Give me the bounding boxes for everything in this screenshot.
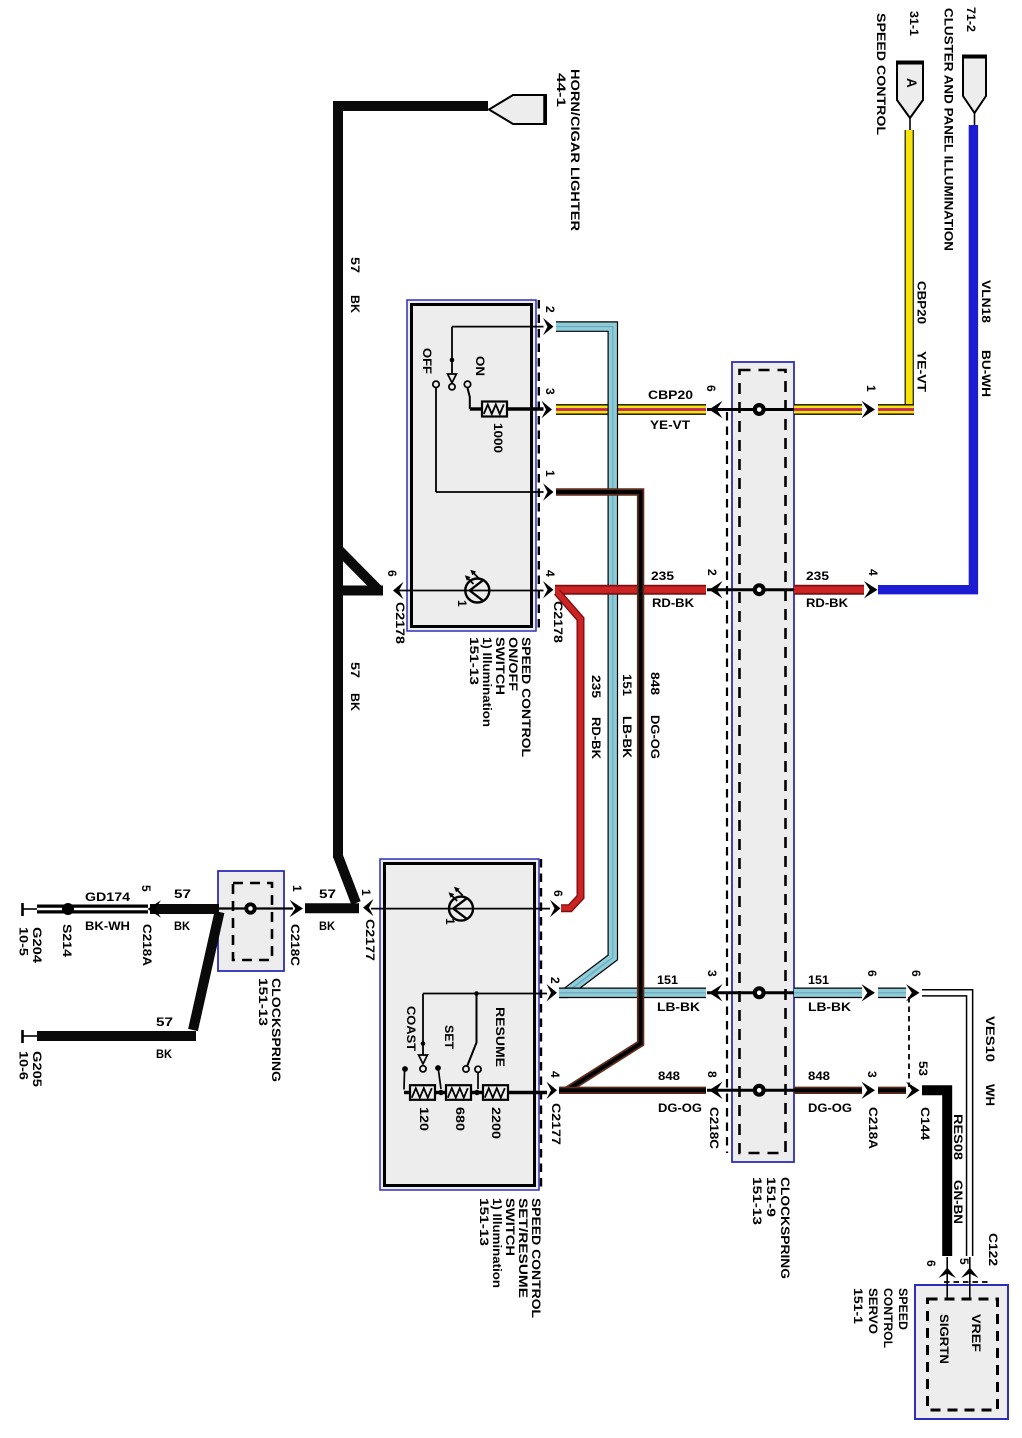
svg-text:1: 1 (290, 885, 304, 892)
svg-text:YE-VT: YE-VT (650, 418, 691, 432)
svg-text:1) Illumination: 1) Illumination (490, 1198, 504, 1288)
svg-text:57: 57 (348, 662, 362, 678)
svg-text:151-13: 151-13 (256, 978, 270, 1026)
svg-text:235: 235 (589, 675, 603, 698)
svg-text:2: 2 (548, 977, 562, 984)
svg-text:C218C: C218C (288, 924, 302, 966)
svg-text:4: 4 (548, 1071, 562, 1078)
svg-text:HORN/CIGAR LIGHTER: HORN/CIGAR LIGHTER (568, 69, 582, 231)
svg-text:1000: 1000 (491, 423, 505, 453)
svg-text:SIGRTN: SIGRTN (937, 1314, 951, 1364)
svg-text:DG-OG: DG-OG (808, 1101, 852, 1115)
svg-text:151: 151 (657, 973, 678, 987)
svg-text:C218A: C218A (140, 924, 154, 966)
svg-text:151-9: 151-9 (764, 1177, 778, 1217)
svg-text:151-13: 151-13 (750, 1177, 764, 1225)
svg-text:6: 6 (865, 970, 879, 977)
svg-text:57: 57 (319, 887, 336, 901)
svg-text:CLOCKSPRING: CLOCKSPRING (269, 978, 283, 1082)
svg-text:44-1: 44-1 (554, 73, 568, 107)
svg-text:SPEED: SPEED (896, 1288, 910, 1330)
svg-text:151: 151 (620, 674, 634, 696)
svg-text:VES10: VES10 (983, 1016, 997, 1062)
svg-text:RES08: RES08 (951, 1114, 965, 1160)
svg-text:SET/RESUME: SET/RESUME (516, 1198, 530, 1298)
svg-text:4: 4 (543, 570, 557, 577)
svg-text:2: 2 (543, 306, 557, 313)
svg-text:S214: S214 (60, 924, 74, 957)
svg-text:BU-WH: BU-WH (979, 350, 993, 397)
svg-text:2200: 2200 (489, 1107, 503, 1139)
svg-text:A: A (904, 78, 919, 88)
svg-text:6: 6 (551, 890, 565, 897)
svg-text:1: 1 (443, 918, 457, 925)
svg-text:3: 3 (705, 970, 719, 977)
svg-text:ON/OFF: ON/OFF (506, 637, 520, 691)
svg-text:6: 6 (909, 970, 923, 977)
svg-text:C122: C122 (986, 1233, 1000, 1266)
svg-text:3: 3 (543, 388, 557, 395)
svg-text:GD174: GD174 (85, 890, 130, 904)
svg-text:LB-BK: LB-BK (620, 716, 634, 758)
svg-text:SERVO: SERVO (866, 1288, 880, 1334)
svg-text:RD-BK: RD-BK (806, 596, 848, 610)
svg-text:10-5: 10-5 (17, 927, 31, 956)
svg-text:C2177: C2177 (363, 919, 377, 961)
svg-text:6: 6 (385, 570, 399, 577)
svg-text:OFF: OFF (420, 348, 434, 374)
svg-text:BK-WH: BK-WH (85, 919, 130, 933)
svg-text:RESUME: RESUME (493, 1007, 507, 1067)
svg-text:1: 1 (359, 889, 373, 896)
svg-text:5: 5 (957, 1258, 971, 1265)
svg-text:G204: G204 (30, 927, 44, 963)
svg-text:G205: G205 (30, 1051, 44, 1087)
svg-text:SET: SET (442, 1025, 456, 1050)
svg-text:848: 848 (648, 672, 662, 695)
svg-text:YE-VT: YE-VT (915, 351, 929, 393)
svg-text:1: 1 (543, 470, 557, 477)
svg-text:C144: C144 (918, 1107, 932, 1140)
svg-text:BK: BK (319, 919, 335, 933)
svg-text:SPEED CONTROL: SPEED CONTROL (519, 637, 533, 757)
svg-text:BK: BK (348, 693, 362, 711)
svg-text:4: 4 (866, 569, 880, 576)
svg-text:COAST: COAST (404, 1006, 418, 1052)
svg-text:RD-BK: RD-BK (652, 596, 694, 610)
svg-text:1: 1 (455, 600, 469, 607)
svg-text:CLUSTER AND PANEL ILLUMINATION: CLUSTER AND PANEL ILLUMINATION (942, 8, 956, 251)
svg-text:BK: BK (156, 1047, 172, 1061)
svg-text:848: 848 (658, 1069, 680, 1083)
svg-text:SPEED CONTROL: SPEED CONTROL (874, 13, 888, 135)
svg-text:C2177: C2177 (549, 1103, 563, 1145)
svg-text:DG-OG: DG-OG (658, 1101, 702, 1115)
svg-text:SWITCH: SWITCH (493, 637, 507, 695)
svg-text:SPEED CONTROL: SPEED CONTROL (529, 1198, 543, 1318)
svg-text:5: 5 (139, 885, 153, 892)
svg-text:C218C: C218C (707, 1107, 721, 1149)
svg-text:848: 848 (808, 1069, 830, 1083)
svg-text:SWITCH: SWITCH (503, 1198, 517, 1256)
svg-text:WH: WH (983, 1084, 997, 1106)
svg-text:RD-BK: RD-BK (589, 717, 603, 759)
svg-text:6: 6 (704, 385, 718, 392)
svg-text:CLOCKSPRING: CLOCKSPRING (778, 1177, 792, 1279)
svg-text:C2178: C2178 (393, 602, 407, 644)
svg-text:120: 120 (417, 1107, 431, 1131)
svg-text:3: 3 (865, 1071, 879, 1078)
svg-text:CBP20: CBP20 (648, 388, 693, 402)
svg-text:BK: BK (348, 295, 362, 313)
svg-text:VREF: VREF (969, 1314, 983, 1352)
svg-text:235: 235 (651, 569, 674, 583)
svg-text:CBP20: CBP20 (915, 281, 929, 324)
svg-text:6: 6 (924, 1260, 938, 1267)
svg-text:10-6: 10-6 (17, 1051, 31, 1080)
svg-text:53: 53 (916, 1061, 930, 1076)
svg-text:57: 57 (174, 887, 191, 901)
svg-text:8: 8 (705, 1071, 719, 1078)
svg-text:31-1: 31-1 (907, 11, 921, 36)
svg-text:680: 680 (453, 1107, 467, 1131)
svg-text:BK: BK (174, 919, 190, 933)
svg-text:LB-BK: LB-BK (808, 1000, 851, 1014)
svg-text:LB-BK: LB-BK (657, 1000, 700, 1014)
svg-text:DG-OG: DG-OG (648, 715, 662, 759)
svg-text:C2178: C2178 (551, 601, 565, 643)
svg-text:57: 57 (156, 1015, 173, 1029)
svg-text:1: 1 (864, 385, 878, 392)
svg-text:71-2: 71-2 (964, 7, 978, 32)
svg-text:57: 57 (348, 257, 362, 273)
svg-text:2: 2 (705, 569, 719, 576)
svg-text:VLN18: VLN18 (979, 280, 993, 323)
svg-text:235: 235 (806, 569, 829, 583)
svg-text:151-13: 151-13 (467, 637, 481, 685)
svg-text:CONTROL: CONTROL (881, 1288, 895, 1348)
svg-text:151-13: 151-13 (477, 1198, 491, 1246)
svg-text:GN-BN: GN-BN (951, 1180, 965, 1224)
svg-text:C218A: C218A (866, 1107, 880, 1149)
svg-text:151: 151 (808, 973, 829, 987)
svg-text:ON: ON (473, 356, 487, 376)
svg-text:1) Illumination: 1) Illumination (480, 637, 494, 727)
svg-text:151-1: 151-1 (851, 1288, 865, 1324)
